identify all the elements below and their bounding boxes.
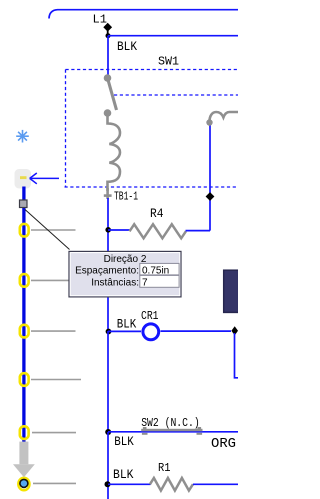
highlight marker 6 under insertion dot	[18, 478, 29, 491]
svg-text:Espaçamento:: Espaçamento:	[75, 266, 139, 277]
wire vertical mid (behind tooltip)	[107, 229, 109, 331]
node junction R1	[105, 481, 111, 487]
rung preview 6	[33, 482, 76, 484]
rung preview 1	[31, 229, 76, 231]
node L1 terminal diamond	[103, 23, 112, 32]
cursor blob faded	[15, 169, 32, 189]
wire TB1 to R4 junction	[107, 198, 109, 232]
rung preview 4	[31, 379, 81, 381]
svg-text:BLK: BLK	[117, 39, 137, 54]
insertion point dot	[20, 479, 28, 487]
wire SW2 rung	[108, 431, 238, 433]
svg-text:SW2 (N.C.): SW2 (N.C.)	[141, 416, 200, 430]
highlight marker 2	[20, 274, 29, 287]
wire horizontal upper BLK run	[108, 35, 238, 37]
inductor coil vertical	[108, 113, 121, 191]
wire right vertical to coil	[209, 123, 211, 231]
svg-text:SW1: SW1	[158, 55, 179, 69]
svg-text:7: 7	[142, 278, 148, 289]
switch SW2 bar	[141, 427, 202, 435]
wire vertical from L1 node to SW1	[107, 36, 109, 78]
rung preview 2	[31, 279, 76, 281]
node junction CR1	[106, 329, 112, 335]
rung preview 3	[31, 330, 76, 332]
tooltip box	[69, 251, 181, 297]
big down arrow	[13, 442, 35, 478]
svg-text:BLK: BLK	[113, 467, 134, 482]
svg-text:0.75in: 0.75in	[142, 266, 169, 277]
resistor R1	[108, 478, 238, 491]
wire vertical CR1 to SW2	[107, 331, 109, 432]
highlight marker 3	[20, 325, 29, 338]
node junction R4	[105, 227, 111, 233]
svg-text:BLK: BLK	[114, 434, 134, 449]
width arrow pointing left	[30, 173, 59, 184]
resistor R4	[108, 224, 210, 238]
svg-text:Instâncias:: Instâncias:	[91, 278, 139, 289]
switch SW1	[104, 74, 117, 117]
wire top feed with arc hook	[49, 10, 238, 19]
node diamond right CR1	[231, 326, 238, 335]
rung preview 5	[32, 432, 76, 434]
wire vertical SW2 to R1	[107, 432, 109, 499]
inductor horizontal top right	[206, 112, 238, 126]
dashed selection box	[65, 70, 239, 188]
svg-text:TB1-1: TB1-1	[114, 190, 138, 204]
highlight marker 1	[20, 224, 29, 237]
svg-text:ORG: ORG	[211, 437, 236, 452]
svg-text:R1: R1	[158, 461, 171, 475]
highlight marker 5	[20, 426, 29, 439]
wire from diamond down and right	[235, 333, 239, 378]
node diamond on right wire	[206, 192, 215, 201]
osnap asterisk marker	[16, 130, 29, 143]
leader line to tooltip	[25, 210, 70, 250]
svg-text:L1: L1	[93, 13, 108, 27]
grip square	[20, 200, 28, 208]
terminal TB1-1	[104, 188, 112, 199]
node junction SW2	[105, 429, 111, 435]
node junction dot top	[106, 33, 111, 38]
relay coil CR1	[108, 324, 231, 340]
svg-text:CR1: CR1	[141, 309, 159, 323]
ladder rail vertical	[22, 187, 25, 444]
highlight marker 4	[20, 373, 29, 386]
svg-text:R4: R4	[150, 206, 164, 221]
svg-text:BLK: BLK	[117, 316, 137, 331]
dashed pole link line	[114, 94, 238, 96]
navy rectangle fragment	[224, 270, 239, 312]
